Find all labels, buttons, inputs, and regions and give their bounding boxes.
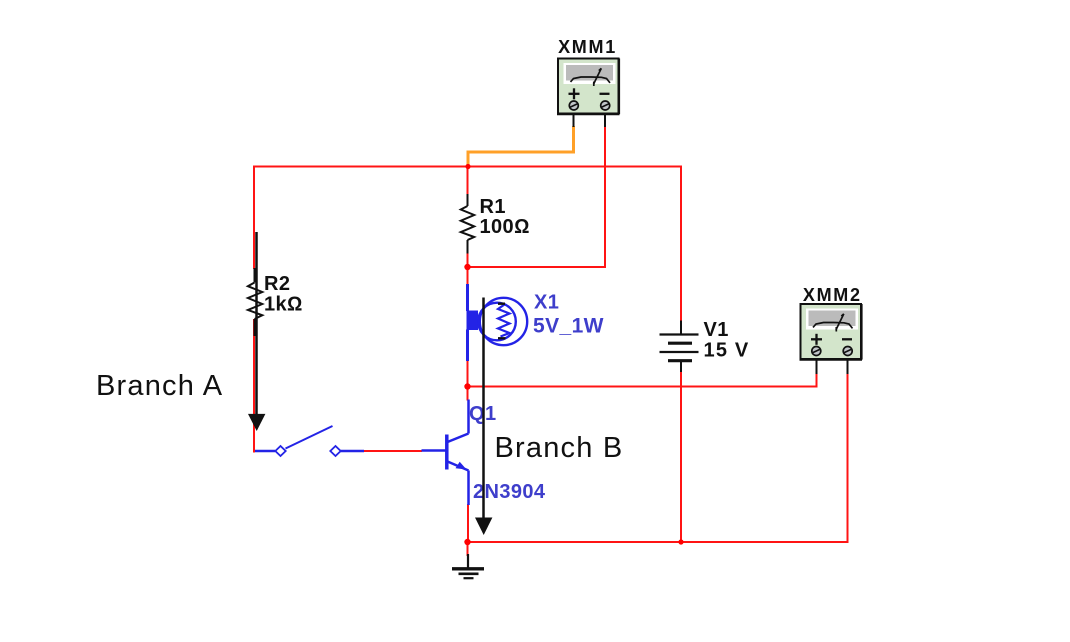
wire battery top (680, 166, 682, 322)
wire R1 bottom to lamp (467, 253, 469, 286)
svg-text:Branch A: Branch A (96, 370, 223, 402)
node junction ground rail left (464, 539, 470, 545)
svg-text:1kΩ: 1kΩ (264, 294, 303, 316)
ground (452, 554, 484, 578)
pin V1 bottom (680, 361, 682, 372)
wire collector row horizontal (468, 386, 817, 388)
annotation arrow branch A (248, 232, 265, 431)
wire bottom rail (468, 541, 848, 543)
switch S1 (255, 426, 364, 456)
wire mid horizontal R1 to XMM1 minus (468, 266, 606, 268)
svg-text:R1: R1 (480, 196, 506, 218)
lamp X1 (467, 284, 528, 361)
svg-text:V1: V1 (704, 319, 729, 341)
pin XMM1 minus (604, 112, 606, 127)
svg-text:15 V: 15 V (704, 339, 750, 361)
svg-text:XMM1: XMM1 (558, 37, 617, 57)
wire R1 top (467, 166, 469, 196)
pin V1 top (680, 321, 682, 336)
wire switch to base (364, 450, 422, 452)
wire top rail (253, 166, 682, 168)
annotation arrow branch B (475, 298, 492, 536)
wire ground stub red (467, 542, 469, 556)
svg-text:XMM2: XMM2 (803, 285, 862, 305)
resistor R2 (248, 268, 262, 336)
wire battery bottom (680, 372, 682, 543)
wire lamp to collector junction (467, 360, 469, 401)
wire XMM2 minus vertical (847, 373, 849, 543)
svg-text:X1: X1 (534, 292, 559, 314)
transistor Q1 (422, 400, 469, 506)
svg-text:R2: R2 (264, 273, 290, 295)
pin XMM1 plus (573, 112, 575, 127)
pin XMM2 plus (816, 357, 818, 374)
node junction battery bottom rail (678, 539, 683, 544)
svg-text:Branch B: Branch B (495, 432, 624, 464)
multimeter XMM1 (557, 59, 620, 128)
battery V1 (660, 321, 699, 373)
wire emitter to bottom rail (467, 504, 469, 542)
wire orange XMM1 plus (468, 126, 574, 166)
multimeter XMM2 (800, 304, 863, 374)
wire left branch vertical lower (253, 319, 255, 453)
svg-text:100Ω: 100Ω (480, 216, 530, 238)
node junction R1 bottom (464, 264, 470, 270)
wire XMM2 plus vertical (816, 373, 818, 388)
pin X1 top (466, 284, 469, 311)
node junction collector row (464, 383, 470, 389)
resistor R1 (461, 194, 474, 254)
svg-text:5V_1W: 5V_1W (533, 315, 604, 338)
wire XMM1 minus vertical (604, 127, 606, 268)
pin X1 bottom (466, 330, 469, 362)
pin XMM2 minus (847, 357, 849, 374)
wire left branch vertical upper (253, 166, 255, 270)
node junction orange tap (465, 164, 470, 169)
